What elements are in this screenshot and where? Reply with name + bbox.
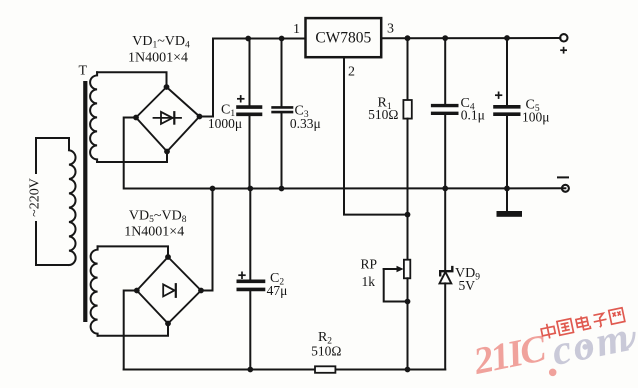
junction C5 top on output rail: [504, 35, 510, 41]
regulator U1 CW7805 box: [306, 18, 382, 57]
子: [592, 313, 607, 328]
capacitor C1: [238, 39, 261, 189]
resistor R1: [403, 38, 411, 260]
wire secondary2 bottom to bridge2 AC bottom: [98, 324, 168, 336]
svg-text:0.1μ: 0.1μ: [461, 108, 485, 123]
svg-text:2: 2: [348, 65, 355, 80]
junction C5/ground on 0V rail: [504, 186, 510, 192]
capacitor C4: [433, 38, 457, 189]
wire secondary1 bottom to bridge1 AC bottom: [97, 152, 167, 163]
wire bridge2 left corner down to bottom negative wire: [124, 291, 137, 370]
wire bottom -V wire: [124, 369, 446, 371]
watermark 21IC.com: [469, 326, 557, 388]
minus sign: [558, 176, 568, 178]
diode symbol inside bridge2: [163, 284, 176, 297]
wire secondary1 top to bridge1 AC top: [97, 72, 166, 87]
junction C1 top on input rail: [245, 36, 251, 42]
junction RP bottom on -V wire: [405, 367, 411, 373]
wire bridge2 right corner up to negative rail: [201, 189, 213, 291]
svg-text:VD5~VD8: VD5~VD8: [129, 209, 187, 226]
svg-text:~220V: ~220V: [28, 178, 43, 217]
junction C3 top on input rail: [279, 36, 285, 42]
junction C3 bottom on 0V rail: [279, 186, 285, 192]
bridge rectifier VD5-VD8 diamond: [137, 257, 201, 324]
diode symbol inside bridge1: [154, 112, 182, 124]
junction C4 top on output rail: [442, 35, 448, 41]
wire regulator output rail to + terminal: [381, 37, 560, 39]
transformer secondary winding 2: [91, 246, 98, 335]
junction bridge1 AC bottom corner: [164, 149, 170, 155]
junction bridge outputs on 0V rail: [210, 186, 216, 192]
junction C4/VD9 on 0V rail: [442, 186, 448, 192]
capacitor C2: [238, 189, 263, 370]
svg-text:47μ: 47μ: [267, 283, 288, 298]
svg-text:3: 3: [387, 22, 394, 37]
svg-text:RP: RP: [361, 256, 378, 271]
svg-text:1N4001×4: 1N4001×4: [128, 51, 188, 66]
resistor R2: [315, 366, 335, 373]
svg-text:1N4001×4: 1N4001×4: [124, 225, 184, 240]
svg-text:1: 1: [293, 22, 300, 37]
wire secondary2 top to bridge2 AC top: [98, 246, 168, 257]
output terminal +: [560, 34, 567, 41]
ground symbol: [497, 188, 523, 216]
capacitor C3: [273, 39, 292, 189]
plus sign C2: [238, 272, 245, 280]
junction bridge2 AC top corner: [165, 254, 171, 260]
transformer primary winding: [36, 138, 76, 265]
junction bridge2 AC bottom corner: [165, 321, 171, 327]
junction bridge2 DC+ right corner: [198, 288, 204, 294]
svg-text:510Ω: 510Ω: [368, 107, 398, 122]
junction C1/C2 on 0V rail: [247, 186, 253, 192]
transformer secondary winding 1: [90, 72, 97, 162]
wire regulator pin2 down and right to R1 node: [344, 57, 408, 214]
junction RP wiper tap: [405, 299, 411, 305]
svg-text:100μ: 100μ: [522, 110, 550, 125]
capacitor C5: [495, 38, 519, 188]
svg-text:VD1~VD4: VD1~VD4: [132, 34, 190, 51]
junction pin2 node R1/RP: [405, 212, 411, 218]
svg-text:1000μ: 1000μ: [208, 116, 242, 131]
watermark chinese 中国电子网 (drawn strokes): [540, 308, 625, 340]
junction C2 bottom on -V wire: [247, 367, 253, 373]
junction R1 top on output rail: [405, 35, 411, 41]
plus sign C1: [237, 95, 245, 102]
potentiometer RP: [384, 260, 411, 370]
wire bridge1 right corner to top rail riser: [200, 39, 214, 117]
网: [609, 308, 625, 325]
国: [557, 319, 574, 336]
wire negative 0V rail: [213, 187, 566, 189]
svg-text:T: T: [79, 64, 88, 79]
plus sign output: [560, 47, 567, 54]
wire bridge1 left corner down to negative rail: [124, 118, 213, 189]
output terminal -: [562, 185, 569, 192]
junction bridge1 DC+ right corner: [197, 114, 203, 120]
transformer T core: [83, 81, 87, 322]
zener diode VD9: [440, 188, 453, 369]
svg-text:510Ω: 510Ω: [311, 344, 341, 359]
wire top positive rail (bridge to regulator input): [213, 38, 306, 40]
junction bridge1 AC top corner: [164, 84, 170, 90]
中: [540, 322, 556, 339]
junction bridge1 DC- left corner: [133, 115, 139, 121]
svg-text:5V: 5V: [459, 278, 476, 293]
svg-text:0.33μ: 0.33μ: [290, 116, 321, 131]
junction bridge2 DC- left corner: [134, 288, 140, 294]
svg-text:1k: 1k: [362, 274, 376, 289]
电: [575, 315, 590, 331]
bridge rectifier VD1-VD4 diamond: [136, 87, 200, 152]
svg-text:CW7805: CW7805: [315, 30, 371, 47]
plus sign C5: [495, 92, 502, 99]
